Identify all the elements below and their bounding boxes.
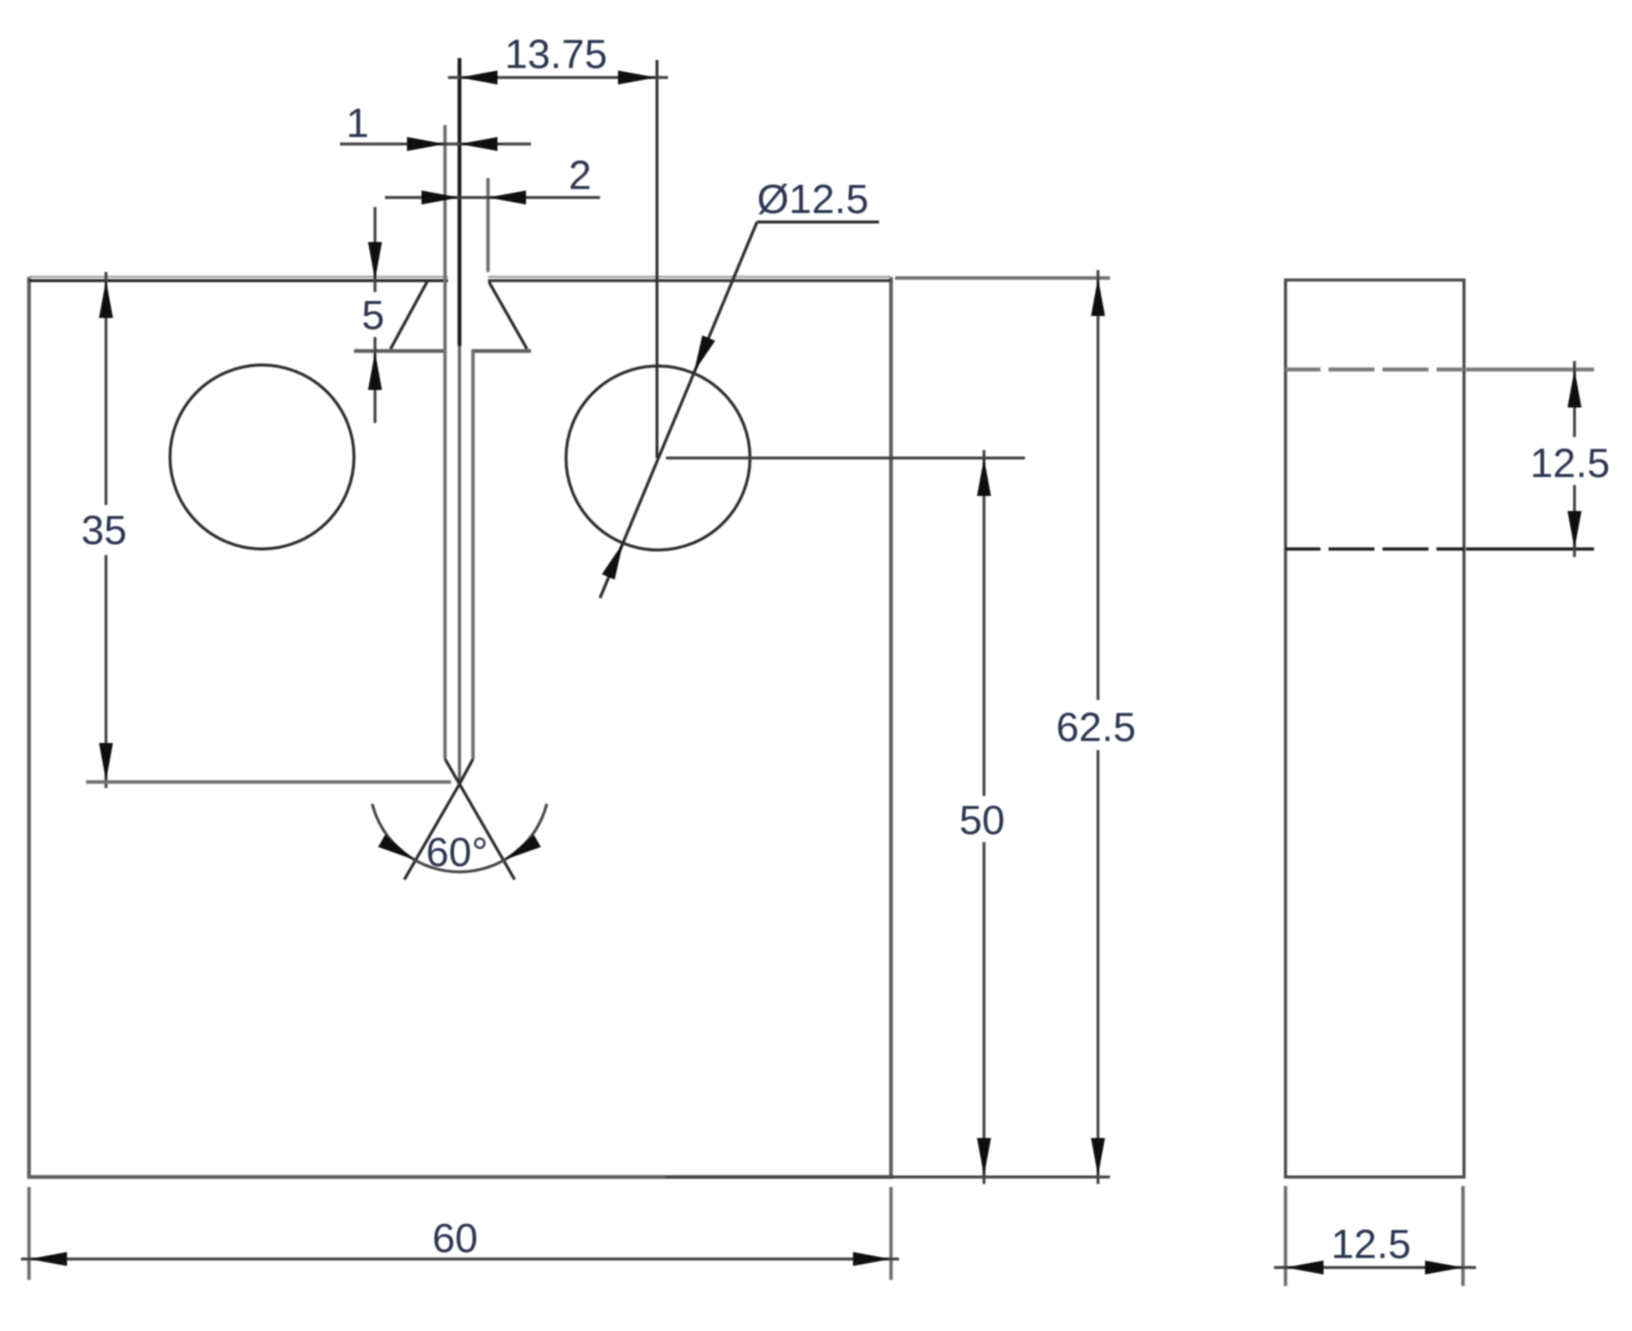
svg-text:2: 2: [569, 152, 592, 198]
slot tip V left: [445, 759, 460, 784]
extension line top right (62.5): [895, 276, 1110, 279]
extension line for dim 2 right: [486, 178, 489, 272]
extension line side 12.5 upper: [1466, 368, 1594, 372]
dimension 60: [21, 1215, 899, 1266]
side view hidden line lower: [1286, 547, 1465, 550]
notch step left: [354, 349, 446, 353]
slot tip V right: [460, 759, 474, 784]
dimension 5: [362, 207, 385, 423]
extension line side 12.5 lower: [1466, 547, 1594, 550]
svg-text:1: 1: [346, 100, 369, 146]
dimension 1: [340, 100, 531, 151]
diameter leader line: [600, 176, 879, 598]
hole left: [170, 365, 354, 549]
svg-text:35: 35: [81, 507, 127, 553]
svg-text:12.5: 12.5: [1530, 440, 1610, 486]
extension line 50 top (from circle center): [666, 457, 1025, 460]
svg-text:13.75: 13.75: [505, 31, 608, 77]
svg-text:60: 60: [432, 1215, 478, 1261]
dimension 62.5: [1056, 270, 1136, 1184]
slot centerline lower: [458, 346, 461, 783]
dimension 35: [81, 272, 127, 788]
svg-text:Ø12.5: Ø12.5: [757, 176, 869, 222]
svg-text:50: 50: [959, 797, 1005, 843]
dimension 12.5 side: [1530, 361, 1610, 557]
notch dovetail left flank: [391, 281, 428, 349]
svg-text:12.5: 12.5: [1331, 1221, 1411, 1267]
svg-text:62.5: 62.5: [1056, 704, 1136, 750]
extension line circle center vertical: [656, 60, 659, 458]
svg-text:5: 5: [362, 292, 385, 338]
slot right edge: [471, 351, 474, 759]
plate outline left bottom right edges (front view): [29, 277, 891, 1177]
slot centerline upper dark: [458, 58, 462, 346]
dimension 13.75: [448, 31, 668, 85]
extension line bottom right (50/62.5): [666, 1176, 1110, 1179]
extension line 60 bottom right: [889, 1187, 892, 1280]
plate top edge light upper stripe: [29, 276, 891, 278]
side view hidden line upper: [1286, 368, 1465, 372]
slot left edge: [443, 125, 446, 759]
dimension 50: [959, 450, 1005, 1184]
extension line side bottom right: [1461, 1186, 1464, 1286]
extension line side bottom left: [1284, 1186, 1287, 1286]
side view outline: [1286, 280, 1465, 1177]
notch dovetail right flank: [489, 282, 527, 349]
notch step right: [472, 349, 532, 353]
hole right: [566, 366, 750, 550]
angle 60 deg V right flank: [460, 784, 515, 880]
plate top edge dark stripe: [29, 279, 891, 282]
angle 60 deg V left flank: [404, 784, 459, 880]
svg-text:60°: 60°: [426, 829, 488, 875]
dimension 12.5 bottom: [1274, 1221, 1476, 1275]
angle 60 deg arc: [372, 804, 547, 875]
extension line 35 bottom (to notch tip): [86, 780, 451, 783]
dimension 2: [385, 152, 600, 205]
extension line 60 bottom left: [27, 1187, 30, 1280]
